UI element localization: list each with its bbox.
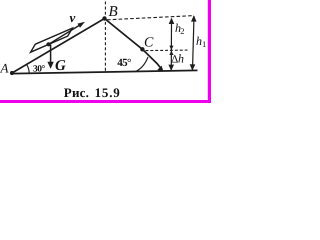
svg-text:1: 1 [202,39,206,49]
svg-text:2: 2 [180,26,184,36]
scan border right [208,0,211,103]
node dot on block (force origin) [46,42,50,46]
delta-h bottom arrowhead [168,65,174,71]
h1 bottom arrowhead [190,64,196,70]
svg-text:30°: 30° [33,65,46,75]
svg-text:45°: 45° [117,57,131,69]
45 degree arc [135,57,149,72]
dimension h1 vertical line [193,16,195,70]
h2 top arrowhead [169,18,175,24]
svg-text:B: B [109,4,118,20]
30 degree arc [27,64,30,72]
block on incline [31,28,73,52]
node C dot [140,47,144,51]
wire trajectory line B to C to ground [105,19,162,70]
svg-text:C: C [144,36,154,51]
vector v arrow [49,24,82,44]
svg-text:Рис.: Рис. [64,85,89,100]
wire vertical dashed line through B [104,2,106,73]
node A dot [10,71,14,75]
svg-text:v: v [70,10,76,25]
wire dashed horizontal line at C level [146,49,188,52]
h1 top arrowhead [191,15,197,21]
wire base ground line [11,70,198,73]
scan border bottom [0,100,211,103]
wire incline line A to B [12,19,105,74]
svg-text:15.9: 15.9 [95,85,121,100]
svg-text:G: G [55,58,66,74]
vector G arrow [50,45,52,65]
h2 bottom arrowhead at C level [169,46,173,50]
delta-h top arrowhead at C level [169,51,173,55]
trajectory arrowhead at ground [157,66,163,72]
svg-text:A: A [0,61,9,76]
node B dot [102,16,106,20]
wire dashed horizontal line at B level [107,16,194,20]
dimension h2 and delta-h vertical line [170,19,172,71]
svg-text:h: h [178,52,184,66]
